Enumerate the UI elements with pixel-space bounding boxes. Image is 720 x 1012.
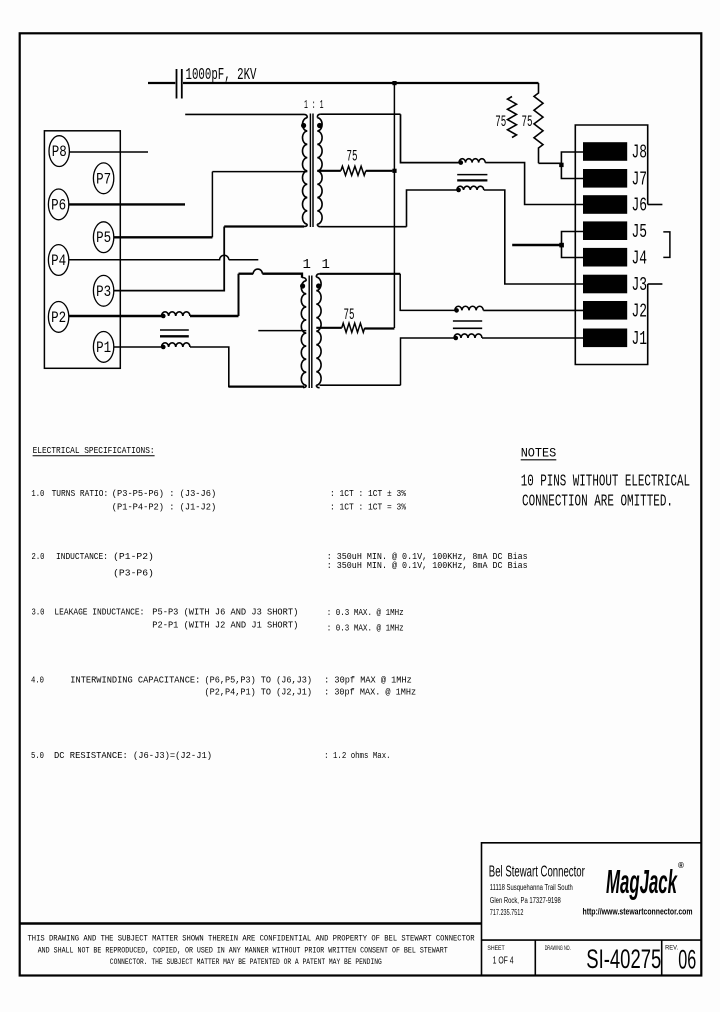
stub at J6 level — [648, 204, 663, 206]
svg-text:1: 1 — [322, 257, 330, 273]
polarity dot T1 primary — [301, 123, 306, 128]
svg-text:REV.: REV. — [665, 945, 678, 952]
svg-text:P2: P2 — [51, 309, 66, 327]
resistor R2 75 — [316, 327, 342, 329]
svg-text:2.0: 2.0 — [32, 552, 45, 562]
svg-text:(P1-P2): (P1-P2) — [113, 552, 154, 562]
svg-text:10 PINS WITHOUT ELECTRICAL: 10 PINS WITHOUT ELECTRICAL — [521, 472, 690, 491]
wire L1 bottom coil to T2 primary bottom — [190, 347, 304, 387]
pin pad J6 — [583, 195, 627, 214]
divider sheet/drawing-no — [534, 940, 536, 974]
transformer T1 core — [309, 114, 311, 228]
wire from P8 (to C1 net) — [69, 151, 148, 153]
wire R4 bottom to J8/J7 tie — [539, 162, 562, 164]
svg-text:75: 75 — [522, 113, 533, 131]
svg-text:SHEET: SHEET — [487, 945, 504, 952]
pin pad J1 — [583, 329, 627, 348]
T1 primary winding P6-P3 — [304, 114, 307, 117]
svg-text:1 : 1: 1 : 1 — [304, 98, 324, 112]
svg-text:J3: J3 — [632, 274, 648, 296]
node tie J8-J7 — [561, 152, 583, 179]
svg-text:NOTES: NOTES — [521, 446, 557, 461]
svg-text:P6: P6 — [51, 196, 66, 214]
svg-text:75: 75 — [347, 148, 358, 166]
wire T1 primary top lead — [185, 113, 304, 115]
pin pad J2 — [583, 301, 627, 320]
pin P1 — [93, 332, 113, 363]
choke L2 core — [457, 174, 487, 176]
resistor R3 75 (floating) — [508, 97, 517, 138]
svg-text:P1: P1 — [96, 339, 111, 357]
svg-text:J8: J8 — [632, 142, 648, 164]
wire T2 secondary bottom lead — [320, 384, 401, 386]
svg-text:DC RESISTANCE: (J6-J3)=(J2-J1): DC RESISTANCE: (J6-J3)=(J2-J1) — [54, 751, 212, 761]
svg-text:SI-40275: SI-40275 — [586, 944, 661, 974]
wire T2 primary center tap stub (P4 net) — [258, 330, 306, 332]
choke L3 core — [453, 320, 482, 322]
svg-text:1 OF 4: 1 OF 4 — [493, 956, 514, 967]
polarity dot T1 secondary — [317, 123, 322, 128]
svg-text:: 1CT : 1CT = 3%: : 1CT : 1CT = 3% — [330, 503, 407, 513]
wire from P4 with hop over P3 riser — [69, 255, 229, 260]
svg-text:ELECTRICAL SPECIFICATIONS:: ELECTRICAL SPECIFICATIONS: — [33, 445, 155, 456]
svg-text:4.0: 4.0 — [31, 676, 44, 686]
wire L1 top coil to T2 primary top — [190, 315, 239, 317]
svg-text:06: 06 — [678, 945, 696, 975]
wire vertical bus from top rail to R1/R2 junctions — [393, 83, 395, 328]
svg-text:http://www.stewartconnector.co: http://www.stewartconnector.com — [583, 907, 693, 917]
svg-text:: 0.3 MAX. @ 1MHz: : 0.3 MAX. @ 1MHz — [327, 608, 404, 618]
svg-text:75: 75 — [344, 306, 355, 324]
choke L3 bottom coil — [454, 334, 482, 338]
wire T1 primary bottom lead — [224, 225, 304, 227]
divider drawing-no/rev — [661, 940, 663, 974]
polarity dot T2 primary — [300, 283, 305, 288]
wire from P6 (T1 primary top net) — [69, 203, 185, 205]
wire T1 secondary bottom to choke L2 bottom — [407, 190, 457, 227]
svg-text:P2-P1 (WITH J2 AND J1 SHORT): P2-P1 (WITH J2 AND J1 SHORT) — [152, 621, 298, 631]
svg-text:(P3-P5-P6) : (J3-J6): (P3-P5-P6) : (J3-J6) — [112, 489, 216, 499]
wire from P3 up to T1 primary bottom — [114, 227, 224, 291]
choke L1 top coil (P2) — [162, 312, 190, 316]
svg-text:75: 75 — [495, 113, 506, 131]
wire T2 secondary top lead — [320, 273, 401, 275]
transformer T2 core — [308, 276, 310, 389]
svg-text:INDUCTANCE:: INDUCTANCE: — [56, 552, 108, 562]
pin pad J3 — [583, 275, 627, 294]
svg-text:: 30pf MAX @ 1MHz: : 30pf MAX @ 1MHz — [324, 676, 412, 686]
wire T1 secondary top to choke L2 top — [401, 114, 460, 162]
svg-text:J5: J5 — [632, 221, 648, 243]
wire T1 secondary bottom lead — [321, 226, 407, 228]
svg-text:Glen Rock, Pa 17327-9198: Glen Rock, Pa 17327-9198 — [490, 895, 561, 905]
resistor R1 75 — [317, 170, 341, 172]
pin pad J8 — [583, 142, 627, 161]
choke L2 top coil — [459, 159, 485, 163]
svg-text:J1: J1 — [632, 328, 648, 350]
capacitor C1 1000pF 2KV plates — [176, 69, 178, 99]
bracket right of J5/J4 — [663, 232, 670, 258]
T1 secondary winding J6-J3 — [317, 114, 320, 117]
pin P5 — [93, 222, 113, 253]
wire from P1 to choke L1 — [114, 346, 162, 348]
svg-text:P5-P3 (WITH J6 AND J3 SHORT): P5-P3 (WITH J6 AND J3 SHORT) — [152, 608, 298, 618]
T2 primary winding P2-P1 — [302, 278, 306, 281]
wire T2 primary top lead with hop — [239, 273, 254, 275]
choke L1 bottom coil (P1) — [162, 343, 190, 347]
svg-text:1.0: 1.0 — [31, 489, 44, 499]
pin pad J4 — [583, 248, 627, 267]
choke L3 top coil — [455, 306, 483, 310]
junction bus / resistor R1 — [392, 169, 396, 173]
wire T2 secondary top to choke L3 top — [400, 274, 455, 311]
choke L2 bottom coil — [457, 186, 484, 190]
svg-text:1: 1 — [303, 257, 311, 273]
svg-text:: 30pf MAX. @ 1MHz: : 30pf MAX. @ 1MHz — [324, 688, 416, 698]
svg-text:(P1-P4-P2) : (J1-J2): (P1-P4-P2) : (J1-J2) — [112, 503, 216, 513]
svg-text:Bel Stewart Connector: Bel Stewart Connector — [489, 864, 585, 881]
svg-text:LEAKAGE INDUCTANCE:: LEAKAGE INDUCTANCE: — [54, 608, 144, 618]
svg-text:AND SHALL NOT BE REPRODUCED, C: AND SHALL NOT BE REPRODUCED, COPIED, OR … — [38, 946, 448, 955]
pin pad J7 — [583, 169, 627, 188]
svg-text:THIS DRAWING AND THE SUBJECT M: THIS DRAWING AND THE SUBJECT MATTER SHOW… — [28, 935, 475, 944]
svg-text:P4: P4 — [51, 252, 66, 270]
pin P7 — [93, 163, 113, 194]
svg-text:: 350uH MIN. @ 0.1V, 100KHz, 8: : 350uH MIN. @ 0.1V, 100KHz, 8mA DC Bias — [327, 561, 528, 571]
wire top rail from C1 to resistor R4 — [183, 82, 539, 84]
disclaimer band top edge — [20, 922, 482, 924]
wire T1 primary center tap (P5) — [212, 171, 307, 173]
svg-text:J2: J2 — [632, 301, 648, 323]
svg-text:J7: J7 — [632, 169, 648, 191]
svg-text:CONNECTOR. THE SUBJECT MATTER: CONNECTOR. THE SUBJECT MATTER MAY BE PAT… — [110, 958, 382, 967]
svg-text:: 0.3 MAX. @ 1MHz: : 0.3 MAX. @ 1MHz — [327, 624, 404, 634]
wire from P5 to T1 center tap — [114, 236, 213, 238]
polarity dot T2 secondary — [316, 283, 321, 288]
svg-text:(P3-P6): (P3-P6) — [113, 568, 154, 578]
svg-text:P7: P7 — [96, 170, 111, 188]
svg-text:P3: P3 — [96, 283, 111, 301]
svg-text:J4: J4 — [632, 247, 648, 269]
svg-text:(P2,P4,P1) TO (J2,J1): (P2,P4,P1) TO (J2,J1) — [205, 688, 313, 698]
title block divider horizontal — [482, 939, 702, 941]
wire T1 secondary top lead — [321, 113, 401, 115]
wire L3 bottom coil to J1 — [482, 337, 583, 339]
junction top rail / vertical bus — [392, 81, 396, 85]
pin P3 — [93, 275, 113, 306]
pin pad J5 — [583, 221, 627, 240]
svg-text:: 1CT : 1CT ± 3%: : 1CT : 1CT ± 3% — [330, 489, 407, 499]
connector box P (plug side) — [44, 131, 120, 368]
connector box J (jack side) outline — [575, 125, 647, 365]
resistor R4 75 — [534, 83, 543, 163]
wire L2 top coil to J6 — [485, 163, 583, 205]
wire L3 top coil to J2 — [483, 309, 583, 311]
wire to J5/J4 tie — [512, 244, 561, 246]
wire riser to T2 primary top lead — [238, 274, 240, 316]
svg-text:TURNS RATIO:: TURNS RATIO: — [52, 489, 109, 499]
pin P6 — [48, 189, 68, 220]
svg-text:INTERWINDING CAPACITANCE:: INTERWINDING CAPACITANCE: — [70, 676, 200, 686]
svg-text:P8: P8 — [52, 143, 67, 161]
pin P2 — [48, 302, 68, 333]
node tie J5-J4 — [562, 232, 584, 258]
pin P4 — [48, 245, 68, 276]
svg-text:5.0: 5.0 — [31, 751, 44, 761]
svg-text:: 1.2 ohms Max.: : 1.2 ohms Max. — [324, 751, 391, 761]
T2 secondary winding J2-J1 — [316, 274, 319, 277]
stub at J3 level — [648, 283, 663, 285]
svg-text:DRAWING NO.: DRAWING NO. — [545, 945, 571, 952]
pin P8 — [49, 136, 69, 167]
wire top rail left lead to capacitor C1 — [148, 82, 175, 84]
svg-text:1000pF, 2KV: 1000pF, 2KV — [186, 66, 258, 85]
svg-text:MagJack: MagJack — [606, 863, 678, 900]
svg-text:717.235.7512: 717.235.7512 — [490, 907, 524, 917]
svg-text:®: ® — [678, 861, 684, 870]
choke L1 core — [160, 329, 189, 331]
wire from P2 to choke L1 — [69, 315, 162, 317]
svg-text:P5: P5 — [96, 229, 111, 247]
svg-text:3.0: 3.0 — [32, 608, 45, 618]
svg-text:11118 Susquehanna Trail South: 11118 Susquehanna Trail South — [490, 882, 573, 892]
wire L2 bottom coil to J3 — [484, 190, 583, 284]
svg-text:CONNECTION ARE OMITTED.: CONNECTION ARE OMITTED. — [522, 491, 673, 510]
wire T2 secondary bottom to choke L3 bottom — [401, 338, 455, 385]
svg-text:(P6,P5,P3) TO (J6,J3): (P6,P5,P3) TO (J6,J3) — [205, 676, 313, 686]
title block outline — [482, 843, 702, 975]
svg-text:J6: J6 — [632, 195, 648, 217]
